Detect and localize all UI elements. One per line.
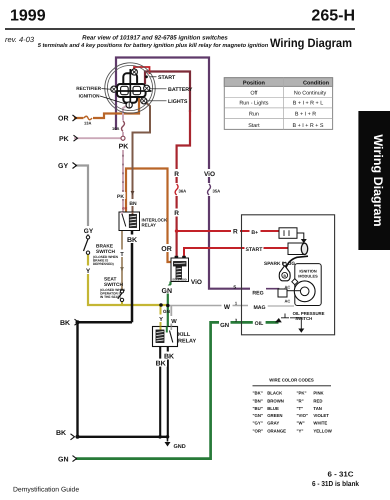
svg-text:IGNITION: IGNITION xyxy=(79,94,100,99)
svg-text:IN THE SEAT): IN THE SEAT) xyxy=(100,295,121,299)
svg-text:BN: BN xyxy=(129,201,137,207)
svg-text:START: START xyxy=(158,75,176,81)
svg-text:"R": "R" xyxy=(297,398,304,403)
svg-text:SWITCH: SWITCH xyxy=(104,282,123,288)
svg-text:PINK: PINK xyxy=(313,390,324,395)
svg-text:OIL: OIL xyxy=(255,321,264,327)
svg-text:"Y": "Y" xyxy=(297,428,304,433)
svg-text:"VIO": "VIO" xyxy=(297,413,308,418)
svg-text:LIGHTS: LIGHTS xyxy=(168,99,188,105)
svg-text:PK: PK xyxy=(119,144,129,151)
svg-text:1999: 1999 xyxy=(10,8,46,25)
svg-text:GN: GN xyxy=(163,309,171,314)
svg-text:SOLENOID: SOLENOID xyxy=(172,278,187,282)
svg-text:Off: Off xyxy=(250,91,258,97)
svg-text:W: W xyxy=(224,304,231,311)
svg-text:SEAT: SEAT xyxy=(104,277,117,283)
svg-text:Rear view of 101917 and 92-678: Rear view of 101917 and 92-6785 ignition… xyxy=(82,35,228,42)
svg-text:Position: Position xyxy=(243,80,266,87)
svg-text:WIRE COLOR CODES: WIRE COLOR CODES xyxy=(269,378,314,383)
svg-text:WHITE: WHITE xyxy=(313,421,327,426)
svg-text:6 - 31D is blank: 6 - 31D is blank xyxy=(312,479,359,488)
svg-text:Run: Run xyxy=(249,112,259,118)
svg-text:OR: OR xyxy=(58,116,69,123)
svg-text:TAN: TAN xyxy=(313,406,322,411)
svg-text:GRAY: GRAY xyxy=(267,421,279,426)
svg-text:AC: AC xyxy=(285,299,291,304)
svg-text:"GN": "GN" xyxy=(253,413,264,418)
svg-text:Run - Lights: Run - Lights xyxy=(239,101,268,107)
svg-text:B + I + R: B + I + R xyxy=(295,112,316,118)
svg-text:"BN": "BN" xyxy=(253,398,263,403)
svg-text:"BK": "BK" xyxy=(253,390,263,395)
svg-text:BATTERY: BATTERY xyxy=(168,87,193,93)
svg-text:PK: PK xyxy=(117,194,124,200)
svg-text:OR: OR xyxy=(161,246,172,253)
svg-text:Wiring Diagram: Wiring Diagram xyxy=(371,134,385,226)
svg-text:MAG: MAG xyxy=(253,305,265,311)
svg-text:Wiring Diagram: Wiring Diagram xyxy=(270,36,352,50)
svg-text:GREEN: GREEN xyxy=(267,413,282,418)
svg-text:GY: GY xyxy=(84,228,94,235)
svg-text:Y: Y xyxy=(159,317,163,323)
svg-text:SPARK PLUG: SPARK PLUG xyxy=(264,261,295,267)
svg-text:PK: PK xyxy=(59,136,69,143)
svg-text:"GY": "GY" xyxy=(253,421,263,426)
svg-text:RELAY: RELAY xyxy=(178,339,196,345)
svg-text:OR: OR xyxy=(122,207,128,211)
svg-text:5 terminals and 4 key position: 5 terminals and 4 key positions for batt… xyxy=(38,42,269,49)
svg-text:R: R xyxy=(174,210,179,217)
svg-text:Demystification Guide: Demystification Guide xyxy=(13,487,79,494)
svg-text:35A: 35A xyxy=(213,189,221,194)
svg-text:SWITCH: SWITCH xyxy=(295,316,312,321)
svg-text:13A: 13A xyxy=(84,121,91,126)
svg-text:W: W xyxy=(171,319,177,325)
svg-text:R: R xyxy=(233,229,238,236)
svg-text:RED: RED xyxy=(313,398,322,403)
svg-text:B + I + R + L: B + I + R + L xyxy=(293,101,323,107)
svg-text:R: R xyxy=(174,171,179,178)
svg-text:ViO: ViO xyxy=(204,171,215,178)
svg-text:KILL: KILL xyxy=(178,332,191,338)
svg-text:RELAY: RELAY xyxy=(142,223,157,228)
svg-text:GND: GND xyxy=(174,444,186,450)
svg-text:ORANGE: ORANGE xyxy=(267,428,286,433)
svg-text:T: T xyxy=(120,252,124,258)
svg-text:rev. 4-03: rev. 4-03 xyxy=(5,35,35,44)
svg-text:6 - 31C: 6 - 31C xyxy=(328,470,354,479)
svg-text:BLUE: BLUE xyxy=(267,406,279,411)
svg-text:10A: 10A xyxy=(112,126,119,131)
svg-text:Condition: Condition xyxy=(303,80,330,87)
svg-text:MODULES: MODULES xyxy=(298,273,318,278)
svg-text:No Continuity: No Continuity xyxy=(294,91,327,97)
svg-text:BK: BK xyxy=(156,360,166,367)
svg-text:BK: BK xyxy=(127,237,137,244)
svg-text:DEPRESSED): DEPRESSED) xyxy=(93,262,114,266)
svg-text:"PK": "PK" xyxy=(297,390,307,395)
svg-text:BLACK: BLACK xyxy=(267,390,283,395)
svg-text:"W": "W" xyxy=(297,421,305,426)
svg-text:GN: GN xyxy=(58,456,69,463)
svg-text:AC: AC xyxy=(285,284,291,289)
svg-text:RECTIFIER: RECTIFIER xyxy=(76,86,101,91)
svg-text:"T": "T" xyxy=(297,406,304,411)
svg-text:Y: Y xyxy=(86,268,91,275)
svg-text:START: START xyxy=(246,247,264,253)
svg-text:GY: GY xyxy=(58,163,68,170)
svg-text:36A: 36A xyxy=(179,189,187,194)
svg-text:S: S xyxy=(233,284,236,289)
svg-text:B+: B+ xyxy=(251,230,258,236)
svg-text:BROWN: BROWN xyxy=(267,398,284,403)
svg-text:SWITCH: SWITCH xyxy=(96,249,115,255)
svg-text:BRAKE: BRAKE xyxy=(96,244,114,250)
svg-text:BK: BK xyxy=(60,320,70,327)
svg-text:"BU": "BU" xyxy=(253,406,263,411)
svg-text:REG: REG xyxy=(252,291,263,297)
svg-text:"OR": "OR" xyxy=(253,428,264,433)
svg-text:Start: Start xyxy=(248,123,260,129)
svg-text:BK: BK xyxy=(56,430,66,437)
svg-text:ViO: ViO xyxy=(191,279,202,286)
svg-text:265-H: 265-H xyxy=(311,8,355,25)
svg-text:GN: GN xyxy=(162,288,173,295)
svg-text:GN: GN xyxy=(220,322,229,329)
svg-text:YELLOW: YELLOW xyxy=(313,428,332,433)
svg-text:B + I + R + S: B + I + R + S xyxy=(292,123,323,129)
svg-text:VIOLET: VIOLET xyxy=(313,413,329,418)
